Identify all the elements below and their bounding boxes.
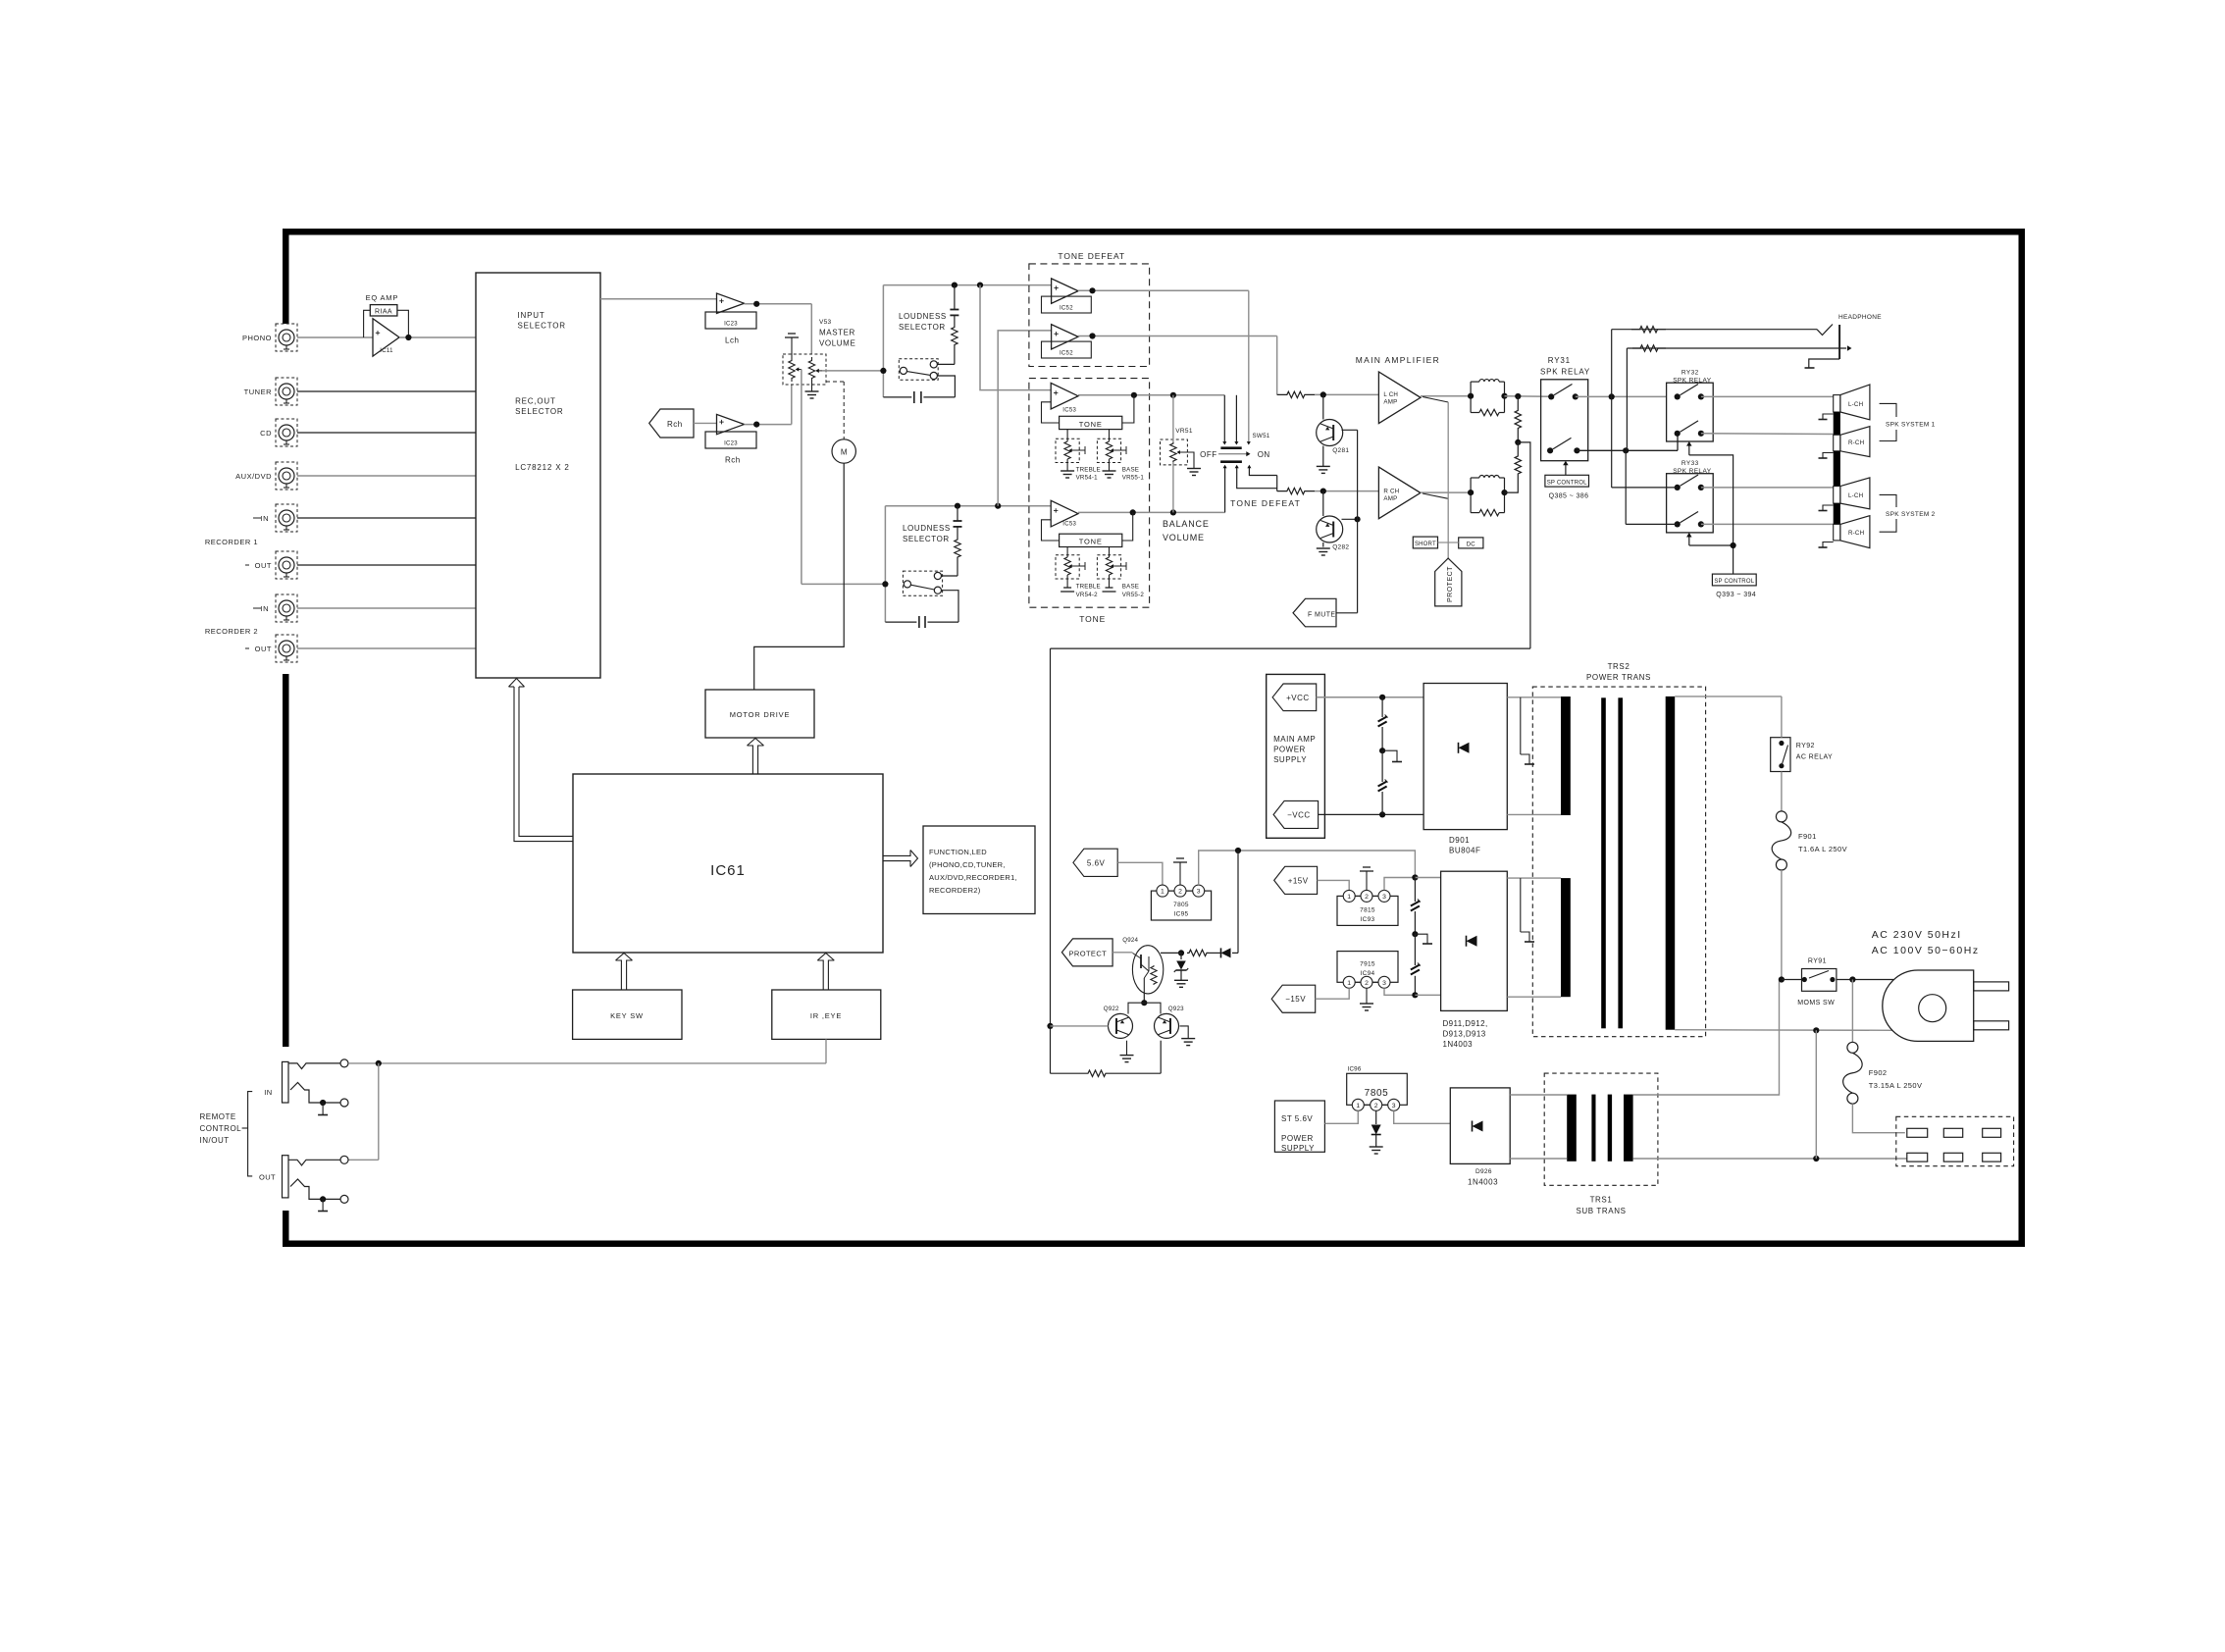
svg-text:SELECTOR: SELECTOR — [903, 535, 950, 543]
svg-text:RECORDER 2: RECORDER 2 — [205, 627, 258, 636]
block TONE 2 — [1060, 534, 1122, 546]
svg-text:TONE: TONE — [1079, 614, 1106, 624]
relay RY92 AC relay — [1771, 738, 1790, 772]
feedback box IC23 Lch — [705, 312, 756, 329]
capacitor VCC filter 1 — [1381, 697, 1383, 717]
svg-text:RECORDER2): RECORDER2) — [929, 886, 981, 895]
capacitor loudness2 bottom — [918, 616, 920, 628]
svg-text:TONE DEFEAT: TONE DEFEAT — [1058, 251, 1125, 261]
ground below volume — [811, 382, 813, 391]
svg-text:CD: CD — [260, 429, 272, 438]
wire loudness1 left vertical — [882, 285, 884, 397]
svg-text:OFF: OFF — [1200, 450, 1217, 459]
svg-text:2: 2 — [1374, 1103, 1378, 1110]
wire TONE2 feedback — [1122, 512, 1133, 541]
fuse F902 — [1847, 1042, 1858, 1053]
capacitor loudness2 — [957, 506, 958, 521]
wire RY32 to L-CH speaker 1 — [1701, 395, 1834, 397]
wire IC52-2 to L amp resistor — [1276, 336, 1278, 395]
svg-text:TUNER: TUNER — [244, 387, 272, 396]
resistor protect — [1187, 950, 1209, 955]
svg-text:RY92: RY92 — [1796, 743, 1815, 749]
svg-text:+VCC: +VCC — [1286, 694, 1310, 702]
svg-text:IC53: IC53 — [1062, 522, 1076, 528]
svg-text:INPUT: INPUT — [518, 311, 545, 320]
svg-text:2: 2 — [1365, 894, 1369, 901]
switch SW51 upper plate — [1220, 446, 1241, 449]
bracket SPK SYSTEM 2 — [1880, 494, 1896, 507]
block DC — [1459, 538, 1483, 548]
ground speaker1 L — [1823, 414, 1834, 419]
block SP CONTROL 2 — [1712, 574, 1756, 586]
svg-text:TREBLE: TREBLE — [1076, 466, 1101, 473]
block MAIN AMP POWER SUPPLY — [1267, 674, 1325, 838]
svg-text:1N4003: 1N4003 — [1468, 1178, 1498, 1187]
potentiometer treble VR54-1 — [1056, 439, 1079, 462]
wire RECORDER1 IN to selector — [297, 517, 476, 519]
svg-text:TONE: TONE — [1079, 420, 1103, 429]
terminal row2 — [1907, 1153, 1928, 1162]
node loudness2 input — [882, 581, 888, 587]
wire to Q922 base — [1051, 1025, 1109, 1027]
ground speaker1 R — [1823, 453, 1834, 458]
svg-text:SPK RELAY: SPK RELAY — [1540, 368, 1590, 377]
op-amp IC52 second — [1052, 325, 1078, 349]
node headphone tap 1 — [1609, 393, 1615, 399]
speaker driver bar column — [1834, 395, 1840, 412]
wire F MUTE to vertical — [1336, 612, 1358, 614]
wire IC23 Lch output to volume — [745, 303, 812, 305]
connector RECORDER2 IN jack — [276, 594, 297, 622]
svg-text:VR54-1: VR54-1 — [1076, 475, 1099, 482]
wire loudness2 branch to IC52-2 input — [998, 331, 1051, 506]
op-amp IC52 first — [1052, 279, 1078, 303]
svg-text:PHONO: PHONO — [242, 334, 272, 342]
svg-text:7915: 7915 — [1360, 961, 1375, 968]
wire rail to protect diode — [1237, 851, 1239, 953]
headphone jack tip notch — [1817, 325, 1833, 336]
svg-text:Q282: Q282 — [1332, 544, 1349, 551]
node IC53-1 output — [1131, 392, 1137, 398]
rectifier D926 — [1450, 1088, 1510, 1164]
switch SW51 lower plate — [1220, 460, 1242, 463]
resistor loudness2 — [957, 527, 958, 538]
wire Q923 emitter gnd — [1180, 1026, 1189, 1039]
node loudness2 to IC52-2 branch — [995, 503, 1001, 509]
transformer TRS1 primary winding — [1567, 1095, 1577, 1162]
block FUNCTION LED — [923, 826, 1035, 914]
ground speaker2 R — [1823, 542, 1834, 547]
svg-text:Rch: Rch — [725, 456, 741, 465]
svg-text:IC61: IC61 — [710, 862, 746, 879]
svg-text:AMP: AMP — [1383, 399, 1397, 406]
svg-text:D911,D912,: D911,D912, — [1443, 1019, 1488, 1028]
svg-text:Rch: Rch — [667, 420, 683, 429]
wire TONE1 feedback — [1122, 395, 1134, 423]
svg-text:V53: V53 — [819, 319, 832, 326]
svg-text:POWER TRANS: POWER TRANS — [1586, 673, 1651, 682]
svg-text:BASE: BASE — [1122, 466, 1139, 473]
connector RECORDER2 OUT jack — [276, 635, 297, 662]
headphone jack sleeve — [1838, 325, 1840, 359]
potentiometer base VR55-1 — [1097, 439, 1120, 462]
svg-text:MASTER: MASTER — [819, 329, 855, 337]
transformer TRS1 core — [1591, 1095, 1595, 1162]
wire SHORT DC stubs — [1438, 542, 1449, 543]
svg-text:RY33: RY33 — [1682, 460, 1699, 467]
svg-text:BU804F: BU804F — [1449, 847, 1480, 855]
wire remote in to IR eye — [348, 1062, 826, 1064]
wire RY33 to R-CH speaker 2 — [1701, 523, 1834, 525]
wire loudness1 bottom line — [883, 396, 911, 398]
connector RECORDER1 IN jack — [276, 504, 297, 532]
svg-text:SELECTOR: SELECTOR — [515, 407, 563, 416]
svg-text:SHORT: SHORT — [1415, 542, 1436, 547]
node IC52-2 output — [1089, 333, 1095, 338]
svg-text:1: 1 — [1347, 980, 1351, 987]
wire F902 down — [1851, 980, 1853, 1043]
transformer TRS2 primary winding 2 — [1561, 878, 1571, 997]
wire RECORDER2 OUT to selector — [297, 647, 476, 649]
svg-text:OUT: OUT — [255, 561, 272, 570]
border frame bottom — [283, 1241, 2025, 1248]
svg-text:VR55-2: VR55-2 — [1122, 592, 1145, 598]
capacitor 15V filter 1 — [1414, 878, 1416, 903]
svg-text:MOTOR DRIVE: MOTOR DRIVE — [730, 710, 791, 719]
svg-text:L-CH: L-CH — [1848, 492, 1863, 499]
wire Q282 collector — [1342, 518, 1358, 520]
node loudness1 input — [880, 368, 886, 374]
node VR51 bottom — [1170, 509, 1176, 515]
wire to R amp — [1315, 490, 1378, 492]
svg-text:RECORDER 1: RECORDER 1 — [205, 538, 258, 546]
node D911 plus — [1412, 874, 1418, 880]
transformer TRS2 primary winding 1 — [1561, 697, 1571, 815]
svg-text:IC11: IC11 — [380, 348, 393, 354]
svg-text:SUB TRANS: SUB TRANS — [1576, 1207, 1626, 1215]
wire chain jog to sense — [1518, 442, 1530, 648]
wire to L amp — [1315, 393, 1378, 395]
node VR51 top — [1170, 392, 1176, 398]
relay RY31 — [1541, 380, 1588, 461]
wire RY92 to F901 — [1781, 772, 1783, 812]
rectifier D901 BU804F — [1423, 684, 1507, 830]
wire 5.6V to IC95 — [1117, 862, 1163, 885]
resistor loudness1 — [954, 315, 956, 326]
switch loudness2 box — [903, 571, 942, 595]
ground IC94 pin2 — [1366, 988, 1368, 1004]
flag -VCC — [1273, 800, 1319, 828]
svg-text:R-CH: R-CH — [1848, 439, 1864, 446]
svg-text:MAIN AMP: MAIN AMP — [1273, 735, 1316, 744]
svg-text:AC 100V 50−60Hz: AC 100V 50−60Hz — [1872, 945, 1980, 956]
transformer TRS1 secondary winding — [1624, 1095, 1633, 1162]
speaker L-CH system1 — [1840, 385, 1870, 420]
potentiometer volume Lch — [808, 357, 814, 382]
wire IC53-1 line stubs to SW51 — [1223, 395, 1225, 442]
wire mute vertical — [1357, 430, 1359, 613]
feedback box IC52 second — [1042, 341, 1092, 358]
svg-text:IC52: IC52 — [1060, 351, 1073, 357]
arrow IC61 to input selector — [519, 687, 573, 836]
wire to Q282 — [1322, 491, 1324, 516]
wire 5.6V rail to D911 — [1238, 851, 1415, 878]
node 15V filter mid — [1412, 931, 1418, 937]
wire contact C2 to bottom — [942, 591, 959, 622]
flag PROTECT down — [1435, 558, 1462, 606]
wire TRS1 top to AC — [1633, 980, 1780, 1096]
diode protect — [1232, 952, 1238, 954]
connector CD jack — [276, 419, 297, 446]
wire loudness2 bottom line — [885, 621, 916, 623]
svg-text:IC96: IC96 — [1348, 1066, 1362, 1073]
node headphone tap 2 — [1623, 447, 1629, 453]
svg-text:VR55-1: VR55-1 — [1122, 475, 1145, 482]
wire loudness1 branch to IC53-1 input — [980, 285, 1051, 390]
ground above IC93 pin2 — [1363, 866, 1371, 868]
svg-text:3: 3 — [1197, 889, 1201, 896]
inductor R output coil — [1470, 478, 1472, 513]
wire EQ amp output to selector — [399, 336, 476, 338]
svg-text:POWER: POWER — [1273, 746, 1306, 754]
wire AUX/DVD to selector — [297, 475, 476, 477]
node TRS1 bottom junction — [1813, 1156, 1819, 1162]
wire +15V to IC93 — [1318, 880, 1350, 890]
wire TRS2 secondary bottom — [1675, 1029, 1891, 1032]
wire volume Rch wiper down — [801, 370, 802, 585]
wire IC96 pin3 to D926 — [1394, 1110, 1451, 1123]
wire motor to motor drive — [754, 463, 845, 690]
wire TRS1 bottom line — [1633, 1158, 1907, 1160]
wire RY31 bottom out — [1577, 449, 1678, 451]
svg-text:KEY SW: KEY SW — [610, 1011, 644, 1020]
ground Q922 — [1126, 1041, 1128, 1056]
terminal strip dashed box — [1896, 1116, 2014, 1165]
svg-text:RY91: RY91 — [1808, 958, 1827, 965]
svg-text:IN: IN — [264, 1088, 272, 1097]
potentiometer volume Rch — [789, 357, 795, 382]
node SP control 2 — [1731, 542, 1736, 548]
svg-text:5.6V: 5.6V — [1087, 858, 1106, 867]
svg-text:EQ AMP: EQ AMP — [366, 293, 399, 302]
flag +VCC — [1272, 684, 1317, 711]
AC plug — [1883, 970, 1974, 1041]
node remote junction — [376, 1060, 382, 1066]
wire IC52-1 output — [1078, 289, 1249, 291]
svg-text:1: 1 — [1347, 894, 1351, 901]
wire IC53-1 output — [1078, 394, 1224, 396]
arrow IC61 to motor drive — [748, 746, 753, 774]
svg-text:SP CONTROL: SP CONTROL — [1714, 579, 1754, 585]
svg-text:VOLUME: VOLUME — [1163, 533, 1205, 542]
svg-text:PROTECT: PROTECT — [1069, 949, 1108, 957]
feedback box IC52 first — [1042, 296, 1092, 313]
inductor L output coil — [1470, 382, 1472, 412]
node VCC filter mid — [1379, 748, 1385, 753]
ground 15V filter — [1415, 934, 1427, 943]
svg-text:M: M — [841, 448, 848, 457]
node loudness1 to IC53 branch — [977, 283, 983, 288]
svg-text:1: 1 — [1161, 889, 1164, 896]
svg-text:MOMS SW: MOMS SW — [1797, 1000, 1835, 1007]
regulator 7915 IC94 — [1337, 952, 1398, 983]
arrow IC61 to function LED — [883, 851, 910, 856]
transistor Q282 — [1317, 516, 1343, 542]
switch loudness2 contacts — [904, 581, 910, 588]
node IC52-1 output — [1089, 287, 1095, 293]
node driver split — [1141, 1000, 1147, 1006]
svg-text:(PHONO,CD,TUNER,: (PHONO,CD,TUNER, — [929, 860, 1006, 869]
resistor L amp input — [1277, 391, 1315, 397]
svg-text:LOUDNESS: LOUDNESS — [903, 524, 951, 533]
svg-text:Q393 ~ 394: Q393 ~ 394 — [1716, 592, 1756, 598]
wire dashed volume to motor — [826, 381, 844, 383]
flag -15V — [1271, 985, 1316, 1012]
svg-text:Q281: Q281 — [1332, 447, 1349, 454]
resistor chain upper — [1515, 396, 1521, 442]
svg-text:DC: DC — [1467, 542, 1476, 547]
wire to Q281 — [1322, 394, 1324, 419]
wire loudness2 left vertical — [884, 506, 886, 622]
relay RY32 — [1667, 383, 1714, 441]
capacitor VCC filter 2 — [1381, 750, 1383, 782]
block IR EYE — [772, 990, 881, 1039]
svg-text:IC95: IC95 — [1174, 911, 1189, 918]
svg-text:AC RELAY: AC RELAY — [1796, 754, 1833, 761]
svg-text:ON: ON — [1258, 450, 1270, 459]
svg-text:IC53: IC53 — [1062, 408, 1076, 414]
op-amp L CH AMP — [1378, 372, 1421, 424]
svg-text:1: 1 — [1356, 1103, 1360, 1110]
op-amp IC23 Lch — [717, 293, 745, 313]
svg-text:D926: D926 — [1475, 1168, 1492, 1175]
svg-text:SUPPLY: SUPPLY — [1273, 755, 1307, 764]
svg-text:1N4003: 1N4003 — [1443, 1040, 1474, 1049]
svg-text:REMOTE: REMOTE — [200, 1112, 236, 1121]
svg-text:OUT: OUT — [259, 1173, 276, 1182]
svg-text:SW51: SW51 — [1253, 433, 1270, 439]
wire IC93 pin3 out — [1384, 878, 1415, 891]
ground above volume — [788, 333, 796, 335]
svg-text:AUX/DVD: AUX/DVD — [235, 472, 272, 481]
resistor RIAA feedback box — [370, 305, 397, 316]
fuse F901 — [1776, 811, 1786, 822]
node 5.6V rail — [1235, 848, 1241, 853]
wire PROTECT to Q924 — [1112, 952, 1132, 954]
svg-text:7805: 7805 — [1365, 1088, 1389, 1099]
wire SW51 lower stub to R amp — [1237, 468, 1277, 489]
svg-text:VR51: VR51 — [1175, 428, 1193, 435]
transformer TRS2 secondary — [1666, 697, 1676, 1030]
block TONE 1 — [1060, 416, 1122, 429]
svg-text:+15V: +15V — [1288, 876, 1309, 885]
wire L coil to RY31 — [1505, 395, 1552, 398]
speaker R-CH system2 — [1840, 516, 1870, 548]
flag 5.6V — [1073, 849, 1117, 876]
wire F901 down — [1781, 870, 1783, 980]
wire to Q922 — [1128, 1003, 1144, 1013]
svg-text:Q385 ~ 386: Q385 ~ 386 — [1549, 493, 1589, 500]
node AC node — [1779, 976, 1785, 982]
node Q282 base node — [1320, 489, 1326, 494]
svg-text:AC 230V 50HzI: AC 230V 50HzI — [1872, 929, 1962, 941]
wire plug lower junction down — [1815, 1030, 1817, 1159]
wire D911 to TRS2 mid top — [1507, 877, 1561, 879]
transistor Q281 — [1317, 420, 1343, 446]
wire SW51 lower stub to IC53-2 line — [1224, 468, 1226, 513]
svg-text:IC23: IC23 — [724, 322, 738, 328]
ground speaker2 L — [1823, 505, 1834, 510]
block KEY SW — [573, 990, 682, 1039]
wire IC53-2 output — [1078, 511, 1225, 513]
wire chain bottom to R coil — [1505, 488, 1519, 492]
regulator 7805 IC95 — [1151, 891, 1211, 920]
border frame top — [283, 229, 2025, 235]
wire headphone L — [1612, 329, 1817, 331]
arrow SP control to RY31 — [1565, 464, 1567, 475]
svg-text:SPK SYSTEM 1: SPK SYSTEM 1 — [1886, 422, 1936, 429]
wire SW51 lower stub jog — [1249, 468, 1276, 476]
speaker R-CH system1 — [1840, 427, 1870, 457]
wire IC94 pin3 — [1384, 988, 1415, 995]
svg-text:SPK SYSTEM 2: SPK SYSTEM 2 — [1886, 511, 1936, 518]
wire PHONO to EQ amp — [297, 336, 373, 338]
connector AUX/DVD jack — [276, 462, 297, 490]
node Q282 collector — [1355, 516, 1361, 522]
wire IC95 pin3 up — [1199, 851, 1238, 885]
op-amp IC11 — [373, 319, 399, 356]
svg-text:FUNCTION,LED: FUNCTION,LED — [929, 848, 987, 856]
wire D911 left bottom — [1415, 994, 1440, 996]
svg-text:7805: 7805 — [1173, 902, 1189, 908]
wire contact C1 to bottom — [937, 376, 955, 397]
transformer TRS2 dashed box — [1532, 687, 1705, 1037]
wire to RY32 lower contact — [1677, 434, 1679, 451]
wire R sense diagonal — [1423, 493, 1448, 498]
svg-text:3: 3 — [1392, 1103, 1396, 1110]
svg-text:TONE DEFEAT: TONE DEFEAT — [1230, 498, 1301, 508]
remote IN jack — [283, 1061, 289, 1103]
potentiometer master volume box — [783, 354, 826, 385]
svg-text:IC93: IC93 — [1361, 916, 1375, 923]
svg-text:2: 2 — [1365, 980, 1369, 987]
diode IC96 pin2 — [1375, 1110, 1377, 1124]
wire RY31 top out — [1576, 395, 1667, 397]
wire -VCC to D901 — [1319, 813, 1424, 815]
wire L sense diagonal — [1423, 397, 1448, 403]
resistor chain lower — [1515, 442, 1521, 488]
svg-text:F901: F901 — [1798, 832, 1817, 841]
wire RY91 to plug — [1837, 979, 1893, 981]
flag +15V — [1274, 866, 1318, 894]
block SHORT — [1413, 537, 1437, 548]
svg-text:CONTROL: CONTROL — [200, 1124, 242, 1133]
node Q281 base node — [1320, 391, 1326, 397]
wire L amp out — [1421, 395, 1471, 397]
wire IC52-2 output — [1078, 336, 1277, 337]
node IC23 Rch output — [753, 422, 759, 428]
svg-text:IC52: IC52 — [1060, 306, 1073, 312]
wire D911 to TRS2 mid bottom — [1507, 996, 1561, 998]
svg-text:TONE: TONE — [1079, 538, 1103, 546]
wire sense line to protect circuit — [1051, 647, 1530, 649]
remote bracket — [248, 1092, 253, 1176]
svg-text:AUX/DVD,RECORDER1,: AUX/DVD,RECORDER1, — [929, 873, 1017, 882]
flag F MUTE — [1293, 598, 1336, 627]
op-amp R CH AMP — [1378, 467, 1421, 519]
svg-text:VR54-2: VR54-2 — [1076, 592, 1099, 598]
svg-text:IN: IN — [261, 514, 270, 523]
